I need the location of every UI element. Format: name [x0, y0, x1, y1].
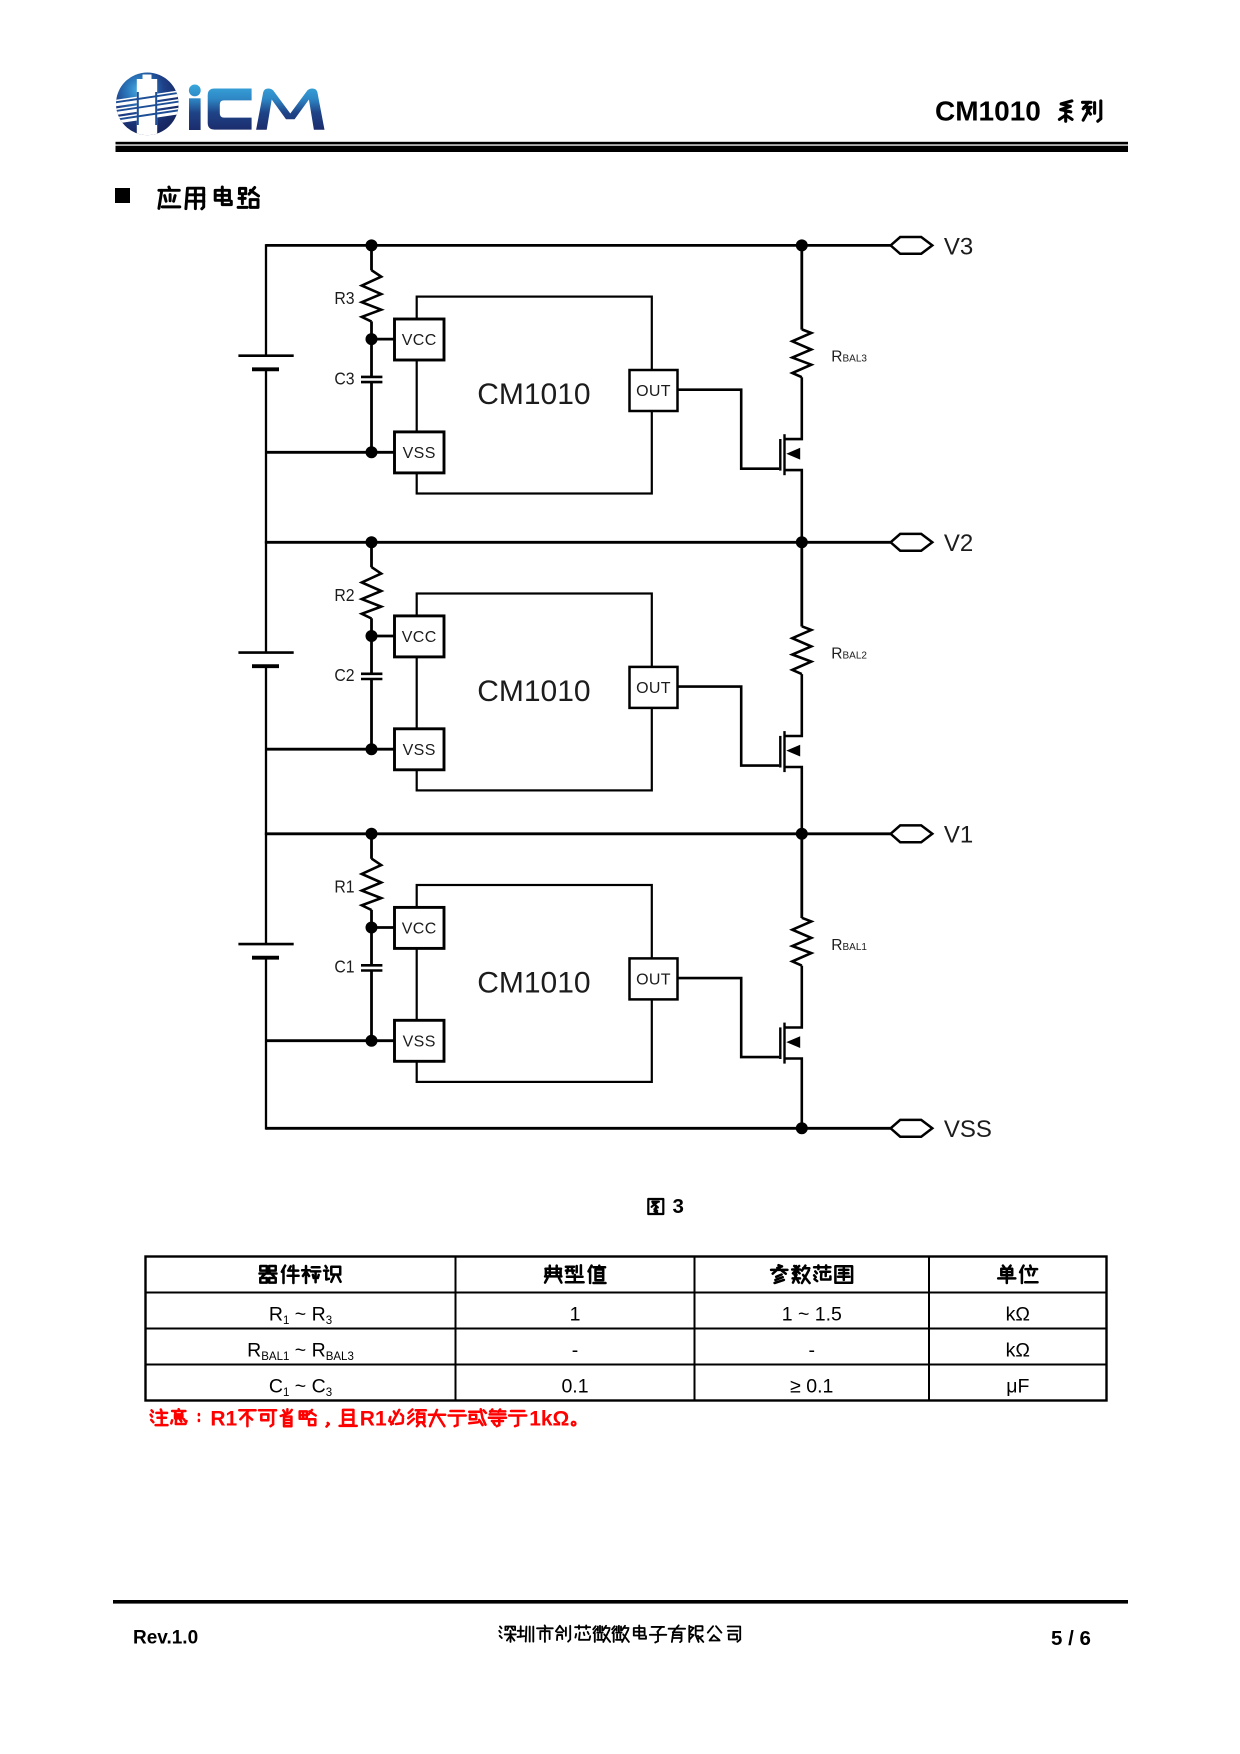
- wire rail to R2: [370, 542, 373, 567]
- svg-text:CM1010: CM1010: [477, 675, 590, 708]
- svg-text:≥ 0.1: ≥ 0.1: [790, 1376, 833, 1398]
- wire bus to VSS pin: [266, 1039, 395, 1042]
- node flag V1: [891, 825, 933, 842]
- pin VCC box cell 3: [395, 319, 445, 360]
- footer rule: [113, 1600, 1128, 1604]
- device name label CM1010: [477, 378, 590, 411]
- transistor Q1 gate bar: [779, 1027, 781, 1059]
- wire V2 rail: [266, 541, 891, 544]
- svg-text:0.1: 0.1: [561, 1376, 588, 1398]
- svg-text:1kΩ: 1kΩ: [529, 1407, 569, 1430]
- wire rail to R1: [370, 834, 373, 859]
- node flag V3: [891, 237, 933, 254]
- pin VCC box cell 2: [395, 616, 445, 657]
- resistor RBAL3: [792, 329, 811, 377]
- op-amp U3 CM1010 body: [417, 297, 652, 494]
- op-amp U2 CM1010 body: [417, 594, 652, 791]
- net label V3: [944, 233, 973, 260]
- resistor R1: [362, 859, 381, 910]
- wire V1 rail: [266, 832, 891, 835]
- svg-text:C3: C3: [334, 368, 354, 388]
- junction node VCC cell 2: [366, 630, 378, 642]
- wire rail to RBAL1: [800, 834, 803, 918]
- svg-text:C1 ~ C3: C1 ~ C3: [269, 1376, 332, 1400]
- pin VSS box cell 2: [395, 729, 445, 770]
- section heading square bullet: [115, 188, 130, 203]
- svg-text:VCC: VCC: [402, 921, 437, 938]
- table row RBAL1~RBAL3: [247, 1340, 1030, 1364]
- svg-text:R2: R2: [334, 585, 354, 605]
- wire C3 to VSS node: [370, 382, 373, 452]
- resistor R2: [362, 567, 381, 618]
- capacitor C2: [361, 674, 382, 679]
- wire left bus upper segment cell 2: [265, 541, 267, 653]
- svg-text:CM1010: CM1010: [477, 378, 590, 411]
- wire RBAL3 to drain: [785, 377, 802, 439]
- wire VSS rail: [266, 1127, 891, 1130]
- footer page number: [1051, 1627, 1091, 1650]
- wire source Q2 to rail: [785, 767, 802, 834]
- table row C1~C3: [269, 1376, 1030, 1400]
- battery B1: [238, 944, 293, 958]
- junction node VSS rail right: [796, 1122, 808, 1134]
- svg-text:VSS: VSS: [403, 1034, 436, 1051]
- wire R1 to VCC node: [370, 910, 373, 928]
- net label V2: [944, 530, 973, 557]
- svg-text:R1 ~ R3: R1 ~ R3: [269, 1304, 332, 1328]
- wire left bus lower segment cell 2: [265, 666, 267, 835]
- wire bus to VSS pin: [266, 451, 395, 454]
- svg-text:RBAL1 ~ RBAL3: RBAL1 ~ RBAL3: [247, 1340, 354, 1364]
- wire source Q1 to rail: [785, 1059, 802, 1129]
- op-amp U1 CM1010 body: [417, 885, 652, 1082]
- wire RBAL1 to drain: [785, 966, 802, 1028]
- junction node VSS cell 1: [366, 1035, 378, 1047]
- pin OUT box cell 1: [630, 958, 678, 999]
- section heading text 应用电路: [159, 187, 259, 209]
- wire R2 to VCC node: [370, 618, 373, 636]
- resistor R3: [362, 270, 381, 321]
- svg-text:μF: μF: [1006, 1376, 1029, 1398]
- wire bus to VSS pin: [266, 748, 395, 751]
- capacitor C3: [361, 377, 382, 382]
- svg-text:Rev.1.0: Rev.1.0: [133, 1627, 198, 1648]
- value label R1: [334, 877, 354, 897]
- wire C2 to VSS node: [370, 679, 373, 749]
- svg-text:OUT: OUT: [636, 972, 671, 989]
- battery B2: [238, 653, 293, 667]
- svg-text:1: 1: [570, 1304, 581, 1326]
- svg-text:1 ~ 1.5: 1 ~ 1.5: [782, 1304, 842, 1326]
- svg-text:CM1010: CM1010: [935, 96, 1041, 127]
- battery B3: [238, 356, 293, 370]
- junction node rail right cell 2: [796, 536, 808, 548]
- transistor Q3 channel bar: [783, 434, 785, 475]
- svg-text:V3: V3: [944, 233, 973, 260]
- value label RBAL3: [831, 348, 867, 365]
- svg-text:RBAL2: RBAL2: [831, 645, 867, 662]
- wire rail to RBAL3: [800, 245, 803, 329]
- table header row: [260, 1265, 1038, 1283]
- pin OUT box cell 3: [630, 370, 678, 411]
- value label C1: [334, 957, 354, 977]
- device name label CM1010: [477, 675, 590, 708]
- wire VCC node to VCC pin: [372, 338, 396, 341]
- svg-text:RBAL1: RBAL1: [831, 937, 867, 954]
- junction node VCC cell 3: [366, 333, 378, 345]
- net label V1: [944, 822, 973, 849]
- svg-text:C1: C1: [334, 957, 354, 977]
- transistor Q2 channel bar: [783, 731, 785, 772]
- node flag V2: [891, 534, 933, 551]
- svg-text:VSS: VSS: [403, 742, 436, 759]
- wire OUT to gate Q2: [678, 687, 780, 766]
- svg-text:R1: R1: [210, 1407, 237, 1430]
- wire VCC node to VCC pin: [372, 635, 396, 638]
- svg-text:-: -: [809, 1340, 816, 1362]
- pin VSS box cell 3: [395, 432, 445, 473]
- resistor RBAL1: [792, 918, 811, 966]
- wire V3 rail: [266, 244, 891, 247]
- svg-text:R1: R1: [334, 877, 354, 897]
- pin OUT box cell 2: [630, 667, 678, 708]
- wire left bus lower segment cell 1: [265, 958, 267, 1130]
- wire source Q3 to rail: [785, 470, 802, 542]
- net label VSS: [944, 1116, 992, 1143]
- wire C1 to VSS node: [370, 971, 373, 1041]
- svg-text:kΩ: kΩ: [1006, 1340, 1030, 1362]
- wire R3 to VCC node: [370, 321, 373, 339]
- node flag VSS: [891, 1120, 933, 1137]
- wire VCC node to C1: [370, 928, 373, 966]
- svg-text:OUT: OUT: [636, 680, 671, 697]
- table row R1~R3: [269, 1304, 1030, 1328]
- device name label CM1010: [477, 966, 590, 999]
- svg-text:OUT: OUT: [636, 383, 671, 400]
- junction node VSS cell 3: [366, 446, 378, 458]
- junction node rail right cell 1: [796, 828, 808, 840]
- value label R2: [334, 585, 354, 605]
- wire VCC node to VCC pin: [372, 926, 396, 929]
- svg-text:V2: V2: [944, 530, 973, 557]
- wire OUT to gate Q3: [678, 390, 780, 469]
- junction node rail right cell 3: [796, 239, 808, 251]
- svg-text:VCC: VCC: [402, 629, 437, 646]
- transistor Q1 body arrow: [786, 1036, 800, 1048]
- wire VCC node to C3: [370, 339, 373, 377]
- pin VSS box cell 1: [395, 1020, 445, 1061]
- wire OUT to gate Q1: [678, 978, 780, 1057]
- parameter table grid: [146, 1257, 1107, 1401]
- svg-text:VSS: VSS: [944, 1116, 992, 1143]
- wire left bus lower segment cell 3: [265, 369, 267, 543]
- svg-text:kΩ: kΩ: [1006, 1304, 1030, 1326]
- ICM company logo: [107, 73, 324, 137]
- value label R3: [334, 288, 354, 308]
- transistor Q2 body arrow: [786, 745, 800, 757]
- wire VCC node to C2: [370, 636, 373, 674]
- svg-text:V1: V1: [944, 822, 973, 849]
- junction node VSS cell 2: [366, 743, 378, 755]
- transistor Q3 body arrow: [786, 448, 800, 460]
- svg-text:CM1010: CM1010: [477, 966, 590, 999]
- junction node rail dot cell 1: [366, 828, 378, 840]
- junction node rail dot cell 2: [366, 536, 378, 548]
- footer company name: [499, 1625, 740, 1642]
- footer revision: [133, 1627, 198, 1648]
- doc title CM1010 series: [935, 96, 1101, 127]
- transistor Q2 gate bar: [779, 736, 781, 768]
- junction node VCC cell 1: [366, 922, 378, 934]
- value label RBAL2: [831, 645, 867, 662]
- wire left bus upper segment cell 3: [265, 244, 267, 356]
- svg-text:5 / 6: 5 / 6: [1051, 1627, 1091, 1650]
- note text red: [151, 1407, 576, 1430]
- value label RBAL1: [831, 937, 867, 954]
- pin VCC box cell 1: [395, 907, 445, 948]
- header rule: [116, 142, 1129, 152]
- wire rail to R3: [370, 245, 373, 270]
- transistor Q3 gate bar: [779, 439, 781, 471]
- wire left bus upper segment cell 1: [265, 833, 267, 945]
- svg-text:VCC: VCC: [402, 332, 437, 349]
- svg-text:C2: C2: [334, 665, 354, 685]
- wire rail to RBAL2: [800, 542, 803, 626]
- wire RBAL2 to drain: [785, 674, 802, 736]
- svg-text:VSS: VSS: [403, 445, 436, 462]
- svg-text:R3: R3: [334, 288, 354, 308]
- resistor RBAL2: [792, 626, 811, 674]
- transistor Q1 channel bar: [783, 1023, 785, 1064]
- svg-text:3: 3: [673, 1195, 684, 1218]
- value label C2: [334, 665, 354, 685]
- figure caption 图 3: [648, 1195, 684, 1218]
- svg-text:R1: R1: [360, 1407, 387, 1430]
- value label C3: [334, 368, 354, 388]
- svg-text:RBAL3: RBAL3: [831, 348, 867, 365]
- svg-text:-: -: [572, 1340, 579, 1362]
- junction node rail dot cell 3: [366, 239, 378, 251]
- capacitor C1: [361, 965, 382, 970]
